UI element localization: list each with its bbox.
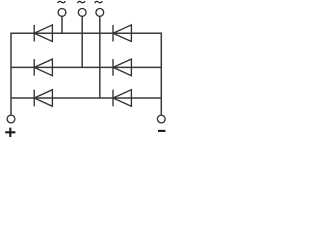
label + (positive output) <box>5 128 15 137</box>
terminal circle + output <box>7 115 15 123</box>
wire right bus (to - terminal) <box>160 32 162 114</box>
wire AC phase 1 drop <box>61 16 63 33</box>
terminal circle AC1 <box>58 9 66 17</box>
label ~ (AC3) <box>95 1 102 2</box>
wire left bus (to + terminal) <box>10 32 12 114</box>
wire AC phase 3 drop <box>99 16 101 98</box>
terminal circle AC3 <box>96 9 104 17</box>
wire AC phase 2 drop <box>81 16 83 67</box>
terminal circle AC2 <box>78 9 86 17</box>
wire row 2 (middle row) <box>11 66 161 68</box>
diode D1 (row 1 left) <box>34 25 52 42</box>
terminal circle - output <box>157 115 165 123</box>
diode D6 (row 3 right) <box>113 90 131 107</box>
diode D4 (row 2 right) <box>113 59 131 76</box>
label - (negative output) <box>158 130 166 132</box>
label ~ (AC2) <box>78 1 85 2</box>
diode D3 (row 2 left) <box>34 59 52 76</box>
wire row 3 (bottom bus row) <box>11 97 161 99</box>
diode D5 (row 3 left) <box>34 90 52 107</box>
label ~ (AC1) <box>58 1 65 2</box>
wire row 1 (top bus, + side row) <box>11 32 161 34</box>
diode D2 (row 1 right) <box>113 25 131 42</box>
